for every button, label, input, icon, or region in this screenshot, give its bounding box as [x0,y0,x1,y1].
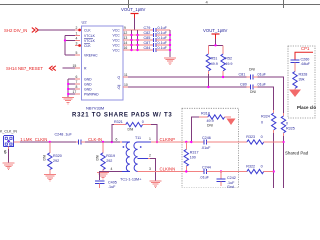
svg-text:GND: GND [84,77,92,81]
connector LMK_CLK_IN J1 [0,130,17,155]
U2 right pin numbers [124,26,128,87]
junction R51 to Qbar [207,86,209,88]
U2 unconnected pin markers [78,29,81,32]
wire DIV_IN to pin 2 [38,29,75,31]
U2 right pin stubs [123,30,128,87]
ground R320 [44,175,56,181]
U2 right pin names [113,28,121,89]
capacitor C81 [239,68,267,80]
svg-text:49.9: 49.9 [211,62,218,66]
svg-text:CLK: CLK [84,44,91,48]
op IC U2 body [82,20,124,111]
svg-text:2: 2 [149,154,151,158]
svg-text:VTCLK: VTCLK [84,34,96,38]
svg-text:R328: R328 [299,73,308,77]
resistor R320 [43,142,62,174]
ground cap bank [164,58,176,64]
capacitor C82 [144,31,171,37]
junction R52 to Q [222,76,224,78]
svg-text:9: 9 [124,26,126,30]
resistor R322 [207,165,274,174]
svg-text:.68uF: .68uF [301,62,311,66]
svg-text:14: 14 [124,41,128,45]
svg-text:2: 2 [76,26,78,30]
svg-text:CLKINN: CLKINN [160,167,176,172]
svg-text:292: 292 [106,159,112,163]
resistor R321 [112,120,157,142]
svg-text:7: 7 [76,80,78,84]
svg-text:39k: 39k [299,77,305,81]
svg-text:R321: R321 [114,120,123,124]
junction R317 top [185,141,187,143]
off-page connector SH2 DIV_IN [4,28,38,33]
svg-text:4: 4 [111,167,113,171]
wire GND bus U2 [68,79,75,97]
capacitor C248 [55,133,86,145]
capacitor C405 [95,180,117,189]
junction R319 [102,141,104,143]
wire VCC rows [128,30,154,50]
wire NB7_RESET to pin 15 [63,67,76,69]
svg-text:0: 0 [261,120,263,124]
svg-text:R321 TO SHARE PADS W/ T3: R321 TO SHARE PADS W/ T3 [72,113,172,119]
svg-text:0.1uF: 0.1uF [158,31,168,35]
junction R318 left [190,141,192,143]
svg-text:Place clo: Place clo [297,105,316,110]
resistor R318 [191,112,231,142]
svg-text:0.1uF: 0.1uF [158,46,168,50]
svg-text:49.9: 49.9 [207,119,214,123]
svg-text:GND: GND [84,87,92,91]
svg-text:DNI: DNI [128,128,134,132]
svg-text:Q: Q [118,75,121,79]
svg-text:100: 100 [190,156,196,160]
off-page connector SH14 NB7_RESET [6,66,56,71]
wire T11 pin4 to C405 [100,172,122,180]
svg-text:C242: C242 [227,176,236,180]
svg-text:C405: C405 [108,180,117,184]
junction VT tie [64,39,66,41]
resistor R323 [207,135,284,144]
ground connector [3,163,15,169]
wire CP1 top [295,52,313,59]
junction terminator top [214,44,216,46]
svg-text:SH2 DIV_IN: SH2 DIV_IN [4,28,27,33]
ground U2 [62,98,74,104]
svg-text:VOUT_1p8V: VOUT_1p8V [203,28,227,33]
resistor R317 [184,142,198,172]
junction gnd bus [67,83,69,85]
svg-text:.1uF: .1uF [108,185,116,188]
svg-text:CLK-IN: CLK-IN [88,137,102,142]
svg-text:11: 11 [124,73,128,77]
svg-text:.01uF: .01uF [257,82,267,86]
svg-text:VCC: VCC [113,38,121,42]
junction CLKINP to R325 [282,141,284,143]
junction R321 left [111,141,113,143]
svg-text:C87: C87 [144,41,151,45]
svg-text:8: 8 [76,85,78,89]
wire Q to shared pad vertical [258,77,284,113]
wire net Qbar [128,86,247,88]
capacitor C246 [201,136,211,150]
svg-text:VCC: VCC [113,48,121,52]
sheet border top [0,0,320,8]
junctions VCC bus [130,34,138,51]
svg-text:Gnd: Gnd [227,185,234,188]
svg-text:DNI: DNI [96,155,100,161]
node CLKINP [157,137,204,142]
svg-text:3: 3 [76,42,78,46]
wire VT tie: pins 1,4 to VREFAC [65,35,75,55]
wire VCC vertical buses [132,30,138,50]
ground T11 [150,181,162,187]
svg-text:6: 6 [116,138,118,142]
svg-text:0: 0 [261,135,263,139]
node CLK-IN [85,137,121,142]
svg-text:R317: R317 [190,151,199,155]
junction CLKINN to R324 [273,170,275,172]
svg-text:0.1uF: 0.1uF [158,41,168,45]
power VOUT_1p8V (terminators) [203,28,227,45]
resistor R324 [261,113,276,172]
node CLKINN [150,167,204,172]
svg-text:R324: R324 [261,115,270,119]
svg-text:R325: R325 [286,126,295,130]
capacitor C242 [216,172,235,190]
svg-text:CLK: CLK [84,28,91,32]
svg-text:16: 16 [124,46,128,50]
U2 left pin numbers [73,26,78,94]
wire net Q [128,76,247,78]
svg-text:49.9: 49.9 [225,62,232,66]
svg-text:GND: GND [84,82,92,86]
capacitor C260 [291,57,311,71]
svg-text:NB7V33M: NB7V33M [86,106,104,111]
svg-text:0: 0 [261,165,263,169]
svg-text:5: 5 [76,51,78,55]
junction R320 [49,141,51,143]
transformer T11 [111,136,158,181]
ground arrow R328 [289,90,301,98]
svg-text:12: 12 [124,31,128,35]
svg-text:3: 3 [149,167,151,171]
resistor R51 [206,45,218,87]
svg-text:C248 .1uF: C248 .1uF [55,133,73,137]
resistor R328 [293,72,308,91]
svg-text:.01uF: .01uF [257,72,267,76]
svg-text:VCC: VCC [113,28,121,32]
svg-text:1: 1 [76,31,78,35]
svg-text:R52: R52 [225,57,232,61]
svg-text:0.1uF: 0.1uF [158,36,168,40]
svg-text:13: 13 [124,36,128,40]
svg-text:U2: U2 [82,20,88,25]
svg-text:CP1: CP1 [301,46,310,51]
svg-text:PWRPAD: PWRPAD [84,92,99,96]
svg-text:TC1-1-13M+: TC1-1-13M+ [120,177,142,181]
svg-text:1: 1 [149,137,151,141]
wire Qbar to shared pad vertical [258,87,274,110]
svg-text:SH14 NB7_RESET: SH14 NB7_RESET [6,66,43,71]
svg-text:C80: C80 [240,82,247,86]
svg-text:.01uF: .01uF [201,146,211,150]
ground arrow R318 [227,119,236,126]
svg-text:Q: Q [118,85,121,89]
svg-text:DNI: DNI [250,90,256,94]
capacitor C80 [240,82,267,93]
junction R317 bottom [185,170,187,172]
svg-text:4: 4 [76,36,78,40]
capacitor C87 [144,41,171,47]
ground R319 [97,173,109,179]
svg-text:R320: R320 [53,154,62,158]
capacitor C84 [144,46,171,52]
svg-text:T11: T11 [135,136,141,140]
svg-text:LMK_CLKIN: LMK_CLKIN [24,137,48,142]
wire T11 pin2 center tap to ground [150,159,156,181]
junction R321 right / T11 pin1 [156,141,158,143]
svg-text:C82: C82 [144,31,151,35]
svg-text:DNI: DNI [249,68,255,72]
svg-text:CLKINP: CLKINP [160,137,176,142]
note box CP1 [288,46,315,118]
svg-text:C244: C244 [202,165,211,169]
capacitor C79 [144,26,171,32]
capacitor C244 [200,165,211,179]
junction C242 [220,170,222,172]
resistor R52 [221,45,233,77]
svg-text:VTCLK: VTCLK [84,39,96,43]
svg-text:VREFAC: VREFAC [84,53,98,57]
junctions cap bus [169,34,171,51]
svg-text:.01uF: .01uF [200,175,210,179]
svg-text:C84: C84 [144,46,151,50]
svg-text:6: 6 [76,75,78,79]
power VOUT_1p8V (U2) [121,7,145,30]
svg-text:Shared Pad: Shared Pad [285,151,309,156]
svg-text:DNI: DNI [43,155,47,161]
resistor R325 [281,116,295,142]
U2 left pin names [84,28,99,96]
svg-text:C260: C260 [301,57,310,61]
svg-text:C81: C81 [239,72,246,76]
svg-text:VCC: VCC [113,33,121,37]
svg-text:0.1uF: 0.1uF [158,26,168,30]
note box share pads [182,108,239,188]
svg-text:C85: C85 [144,36,151,40]
svg-text:15: 15 [73,64,77,68]
node LMK_CLKIN [14,137,76,142]
svg-text:R322: R322 [246,165,255,169]
U2 left pin stubs [75,30,80,94]
svg-text:C79: C79 [144,26,151,30]
svg-text:VOUT_1p8V: VOUT_1p8V [121,7,145,12]
capacitor C85 [144,36,171,42]
svg-text:DNI: DNI [207,124,213,128]
svg-text:R319: R319 [106,154,115,158]
svg-text:292: 292 [53,159,59,163]
resistor R319 [96,142,115,172]
svg-text:VCC: VCC [113,43,121,47]
svg-text:R51: R51 [211,57,218,61]
svg-text:R323: R323 [246,135,255,139]
svg-text:17: 17 [73,90,77,94]
wire connector shield to ground [8,147,10,150]
svg-text:0: 0 [142,120,144,124]
svg-text:10: 10 [124,83,128,87]
wire shared pad stubs to bottom edge [273,172,275,189]
svg-text:K_CLK_IN: K_CLK_IN [0,130,17,134]
svg-text:0: 0 [286,122,288,126]
wire cap bank right bus [169,30,171,57]
